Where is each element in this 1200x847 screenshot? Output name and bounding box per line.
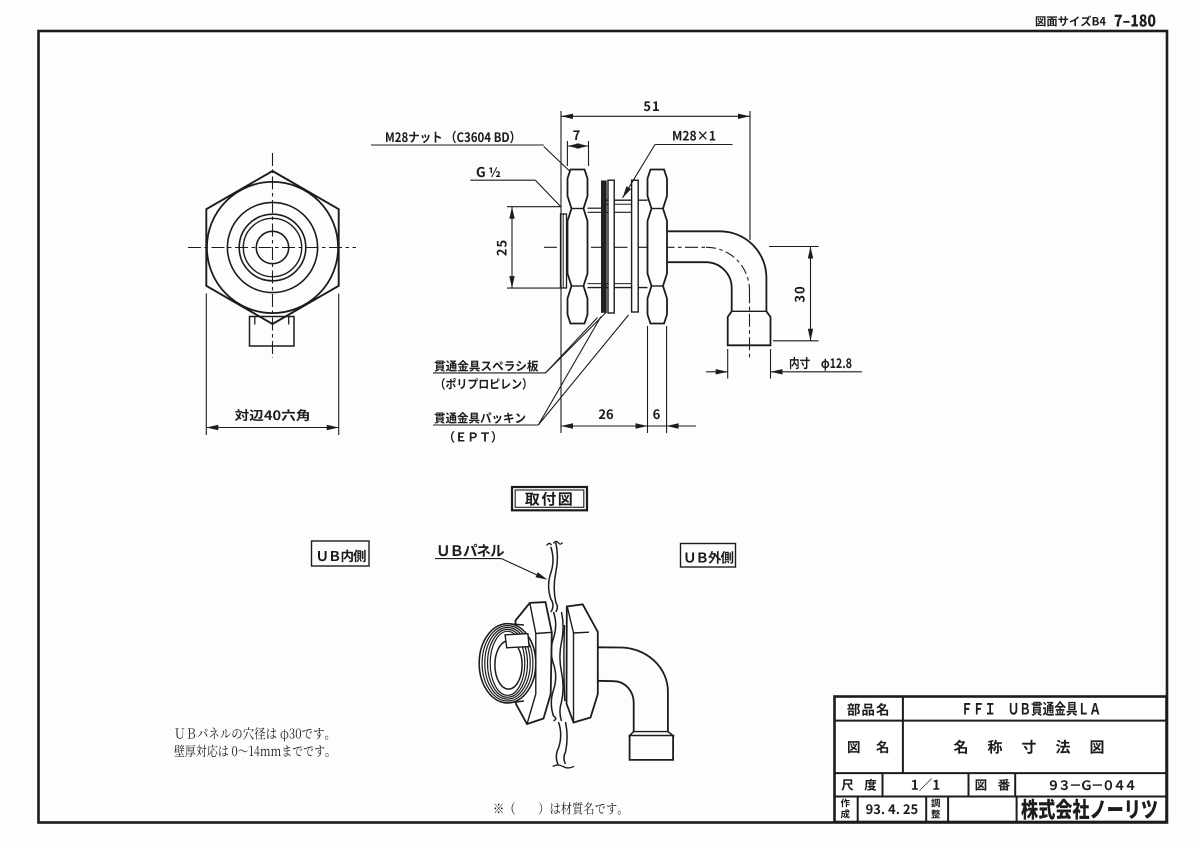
threaded shaft between nuts: [606, 199, 648, 201]
title block company 株式会社ノーリツ: [1021, 799, 1157, 820]
label UB外側: [686, 551, 734, 564]
title block 図名: [848, 741, 888, 754]
label G 1/2: [477, 167, 485, 177]
title block 尺度: [842, 779, 877, 791]
3D thread runout tab: [505, 634, 529, 648]
front view: vertical centerline: [272, 153, 274, 358]
3D threaded cylinder with rings: [508, 624, 525, 703]
dimension inner dia 12.8: extension lines: [727, 349, 729, 379]
install title box 取付図: [512, 487, 587, 510]
label UBパネル: [439, 544, 504, 557]
title block 部品名: [847, 703, 888, 716]
title block 図番: [976, 779, 1010, 791]
3D hex flange 2 (outer nut): [567, 604, 598, 722]
3D pipe socket: [634, 731, 668, 733]
elbow pipe (side view): [667, 231, 766, 311]
title block drawing title: [954, 740, 1104, 754]
label M28 nut (C3604 BD): [386, 131, 513, 144]
dimension inner dia 12.8: dimension line: [706, 371, 728, 373]
second packing plate: [632, 180, 639, 312]
3D elbow pipe: [598, 647, 668, 731]
side view: vertical pipe centerline: [749, 290, 751, 357]
title block part name: [964, 701, 1099, 716]
header drawing size label: [1036, 16, 1106, 27]
front view: chamfer circle: [207, 182, 338, 313]
dimension across-flats 40 hex: extension lines: [205, 294, 207, 436]
note 材質名: [495, 802, 621, 815]
dimension 26: dimension line: [561, 425, 667, 427]
dimension across-flats 40 hex: dimension line: [206, 427, 338, 429]
dimension text 対辺40六角: [235, 409, 309, 421]
front view: hex nut outline (across flats 40): [206, 171, 338, 324]
label 貫通金具スペラシ板: [435, 360, 539, 372]
title block column lines: [902, 697, 904, 774]
note line1 UBパネルの穴径: [175, 727, 328, 741]
dimension 30: extension lines: [769, 246, 819, 248]
pipe end socket (side view): [732, 310, 767, 312]
3D collar between panel and outer hex: [563, 625, 566, 701]
note line2 壁厚対応: [174, 745, 328, 757]
dimension 6: outside arrow: [667, 425, 696, 427]
dimension 51: dimension line: [561, 115, 750, 117]
dimension text 30: [795, 287, 805, 302]
label （ポリプロピレン）: [442, 378, 526, 390]
dimension 26/6: extension lines: [647, 326, 649, 433]
dimension 30: dimension line: [810, 247, 812, 341]
title block number 93-G-044: [1050, 780, 1135, 790]
dimension text 26: [599, 409, 613, 419]
dimension 25: extension lines: [507, 206, 561, 208]
left M28 nut (side view): [568, 170, 588, 324]
title block 作成: [841, 799, 850, 808]
panel bottom squiggle: [553, 765, 574, 768]
dimension text 内寸 φ12.8: [790, 357, 852, 371]
title 取付図: [525, 492, 572, 506]
label 貫通金具パッキン: [435, 412, 526, 424]
dimension 7: extension lines: [566, 141, 568, 166]
title block outer frame: [835, 697, 1167, 823]
label （EPT）: [451, 431, 495, 443]
packing plate (dark): [602, 181, 607, 312]
header sheet number 7-180: [1115, 14, 1156, 26]
side view: horizontal axis centerline: [544, 246, 706, 248]
label M28x1: [673, 131, 715, 141]
dimension text 7: [573, 130, 579, 140]
label box UB外側: [681, 544, 736, 568]
dimension text 6: [653, 409, 660, 419]
dimension text 51: [644, 101, 659, 111]
front view: thread/body circles: [227, 202, 317, 292]
title block row lines: [835, 720, 1167, 722]
dimension text 25: [497, 241, 507, 256]
title block scale 1/1: [912, 778, 940, 791]
side view: G1/2 threaded inlet: [561, 214, 567, 288]
title block 調整: [931, 799, 940, 808]
side view: bend centerline arc: [706, 247, 750, 290]
panel top hooks: [547, 543, 552, 545]
dimension 51: extension lines: [560, 111, 562, 433]
front view: horizontal centerline: [188, 247, 356, 249]
label UB内側: [318, 550, 366, 563]
spacer plate: [608, 180, 614, 313]
wavy UB panel lines: [549, 547, 553, 612]
3D hex flange 1 (inner nut): [516, 602, 552, 724]
dimension 7: dimension line: [567, 145, 588, 147]
label box UB内側: [312, 541, 370, 566]
dimension 25: dimension line: [511, 207, 513, 288]
front view: socket rectangle below hexagon: [250, 317, 295, 347]
title block date: [866, 804, 917, 814]
right M28 nut (side view): [648, 170, 668, 324]
